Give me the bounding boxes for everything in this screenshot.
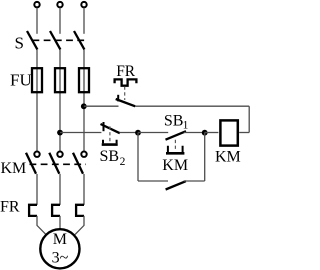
KM main contact 3 blade <box>73 153 83 174</box>
KM main contact 2 circle <box>57 152 62 157</box>
KM main contact 1 circle <box>34 152 39 157</box>
node junction on L2 <box>57 130 63 136</box>
svg-text:FR: FR <box>0 198 20 215</box>
SB2 NC contact tick <box>103 122 105 131</box>
svg-text:KM: KM <box>162 157 188 174</box>
switch S linkage dashed line <box>33 39 87 41</box>
switch S pole 2 blade <box>50 31 60 50</box>
svg-text:SB: SB <box>100 148 120 165</box>
svg-text:2: 2 <box>120 156 126 168</box>
FR thermal symbol bracket <box>115 79 137 85</box>
switch S pole 3 blade <box>74 31 84 50</box>
wire FR element 1 to motor <box>37 216 46 235</box>
wire node to SB1 <box>138 132 168 134</box>
FR NC contact blade <box>116 99 136 106</box>
wire KM1 to FR element <box>36 174 38 205</box>
wire L1 to switch <box>36 8 38 34</box>
svg-text:S: S <box>15 33 24 52</box>
coil KM <box>220 120 237 145</box>
wire switch to fuse FU2 <box>59 50 61 151</box>
FR heater element 3 <box>76 205 84 216</box>
wire L3 to switch <box>83 8 85 34</box>
KM aux contact blade <box>166 181 186 189</box>
wire KM2 to FR element <box>59 174 61 205</box>
svg-text:FR: FR <box>116 63 136 80</box>
node junction on L3 <box>81 103 87 109</box>
svg-text:3~: 3~ <box>52 249 69 266</box>
fuse FU1 <box>32 68 42 92</box>
terminal L3 <box>81 2 86 7</box>
svg-text:SB: SB <box>164 112 184 129</box>
wire switch to fuse FU1 <box>36 50 38 151</box>
SB2 NC contact blade <box>101 124 120 133</box>
wire node to coil <box>205 132 219 134</box>
wire lower rail left <box>138 180 168 182</box>
terminal L1 <box>34 2 39 7</box>
KM main contact 3 circle <box>81 152 86 157</box>
node right branch <box>202 130 208 136</box>
wire FR element 2 to motor <box>59 216 61 229</box>
svg-text:FU: FU <box>10 71 32 90</box>
svg-text:KM: KM <box>1 160 27 177</box>
SB2 button cap bar <box>102 143 118 146</box>
wire FR contact to right edge <box>135 105 249 107</box>
switch S pole 1 blade <box>27 31 37 50</box>
wire junction to FR contact <box>84 105 119 107</box>
wire left branch down <box>137 133 139 182</box>
FR heater element 1 <box>29 205 37 216</box>
svg-text:KM: KM <box>215 148 241 165</box>
SB1 linkage dashed <box>174 140 176 151</box>
wire SB2 to node <box>120 132 139 134</box>
wire right branch down <box>204 133 206 182</box>
wire KM3 to FR element <box>83 174 85 205</box>
wire lower rail right <box>184 180 205 182</box>
wire into coil right side <box>239 132 249 134</box>
SB2 button cap <box>103 140 117 144</box>
wire SB1 to node <box>184 132 205 134</box>
SB1 button cap <box>168 146 183 152</box>
KM main contact 1 blade <box>26 153 36 174</box>
wire FR element 3 to motor <box>75 216 84 235</box>
SB1 button cap bar <box>166 152 184 155</box>
wire L2 to switch <box>59 8 61 34</box>
wire right edge down <box>248 106 250 132</box>
SB1 NO contact blade <box>166 131 187 140</box>
svg-text:M: M <box>53 231 67 248</box>
FR NC contact tick <box>117 95 119 102</box>
FR linkage dashed <box>124 87 126 101</box>
KM linkage dashed line <box>30 163 87 165</box>
node left branch <box>135 130 141 136</box>
wire L2 junction to SB2 <box>60 132 101 134</box>
FR heater element 2 <box>52 205 60 216</box>
terminal L2 <box>57 2 62 7</box>
KM main contact 2 blade <box>49 153 59 174</box>
motor M circle <box>40 229 79 268</box>
wire switch to fuse FU3 <box>83 50 85 151</box>
svg-text:1: 1 <box>183 119 189 131</box>
fuse FU2 <box>55 68 65 92</box>
fuse FU3 <box>79 68 89 92</box>
SB2 linkage dashed <box>109 126 111 142</box>
